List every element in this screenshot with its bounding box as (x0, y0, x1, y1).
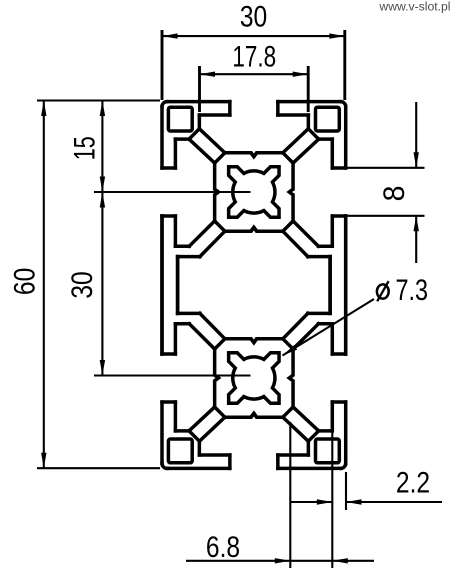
svg-text:7.3: 7.3 (396, 273, 429, 306)
corner screw-channel square hole bottom-left (168, 439, 192, 463)
extension line: slot mouth upper edge, for 8 dim (348, 167, 425, 169)
svg-text:6.8: 6.8 (206, 530, 240, 564)
svg-text:17.8: 17.8 (232, 39, 276, 73)
dimension 17.8: slot hook spacing (200, 72, 309, 77)
svg-text:30: 30 (65, 271, 99, 298)
profile outline: bottom-right quadrant (faces, slot lips, webs, boss) (225, 216, 346, 468)
dimension 30: hole center spacing, left (100, 192, 105, 376)
dimension 6.8: channel-to-wall distance (186, 558, 374, 563)
extension line: slot mouth lower edge, for 8 dim (348, 215, 425, 217)
extension line: right slot hook, for 17.8 dim (307, 66, 310, 112)
profile outline: top-right quadrant (faces, slot lips, webs, boss) (225, 102, 346, 354)
extension line: slot channel edge, for 6.8 dim (289, 422, 291, 568)
center bore (diam 7.3) with screw lobes, upper cell (229, 167, 279, 217)
svg-text:2.2: 2.2 (396, 465, 430, 499)
dimension 60: overall height, left (41, 101, 46, 469)
extension line: right face, for top 30 dim (343, 30, 346, 100)
svg-text:15: 15 (67, 136, 101, 160)
extension line: lower hole centerline, for 30 dim (94, 374, 251, 376)
svg-text:8: 8 (378, 186, 411, 202)
dimension 8: slot opening, right (414, 102, 419, 263)
dimension 15: top face to first hole center (100, 101, 105, 193)
svg-text:www.v-slot.pl: www.v-slot.pl (378, 0, 450, 14)
extension line: top face level, for 60 dim (37, 99, 160, 101)
svg-text:30: 30 (240, 0, 267, 33)
center bore (diam 7.3) with screw lobes, lower cell (229, 353, 279, 403)
dimension 30: overall width, top (162, 33, 345, 38)
corner screw-channel square hole top-right (316, 107, 340, 131)
extension line: left face, for top 30 dim (161, 30, 164, 100)
corner screw-channel square hole top-left (168, 107, 192, 131)
corner screw-channel square hole bottom-right (316, 439, 340, 463)
extension line: upper hole centerline, for 15/30 dims (94, 191, 251, 193)
leader line for diameter 7.3 callout (283, 299, 375, 356)
svg-text:60: 60 (7, 268, 41, 295)
diameter symbol of 7.3 callout (377, 281, 389, 301)
profile outline: bottom-left quadrant (faces, slot lips, webs, boss) (162, 216, 283, 468)
extension line: left slot hook, for 17.8 dim (198, 66, 201, 112)
extension line: bottom face level, for 60 dim (37, 467, 160, 469)
profile outline: top-left quadrant (faces, slot lips, webs, boss) (162, 102, 283, 354)
extension line: right outer face, for 2.2 dim (345, 472, 347, 510)
dimension 2.2: wall thickness (291, 499, 442, 504)
extension line: wall inner face, for 6.8 and 2.2 dims (331, 419, 333, 568)
